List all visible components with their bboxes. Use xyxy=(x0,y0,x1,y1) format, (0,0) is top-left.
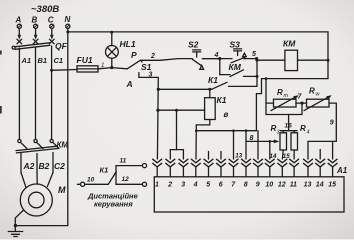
svg-text:5: 5 xyxy=(252,51,256,58)
remote control switch K1 xyxy=(77,158,146,187)
stub terminal 6 xyxy=(220,152,222,160)
switch S1 xyxy=(126,50,156,89)
wire feed to Rт xyxy=(266,79,274,104)
svg-text:P: P xyxy=(131,50,137,60)
terminal 12 of block D1 xyxy=(278,159,287,188)
svg-text:12: 12 xyxy=(278,181,286,188)
wire terminal 7 label 13 xyxy=(233,131,235,159)
circuit breaker QF xyxy=(12,39,68,51)
pushbutton S2 (NC) xyxy=(188,40,220,70)
svg-text:R: R xyxy=(300,124,306,133)
svg-text:К1: К1 xyxy=(217,95,227,105)
wire staple to terminals 2 and 3 xyxy=(170,150,183,159)
wire to lamp xyxy=(111,32,113,45)
terminal 7 of block D1 xyxy=(229,159,238,188)
wire C1 xyxy=(51,46,53,139)
node C phase terminal xyxy=(48,16,54,40)
svg-text:A: A xyxy=(126,79,133,89)
auxiliary contact KM xyxy=(220,59,257,77)
resistor R3 xyxy=(271,124,287,150)
contactor KM main contacts xyxy=(16,139,68,153)
svg-text:т: т xyxy=(284,93,289,99)
svg-text:керування: керування xyxy=(94,200,133,209)
wire bus y129 xyxy=(196,130,256,132)
wire N vertical xyxy=(67,29,69,226)
node 5 xyxy=(255,57,258,60)
svg-text:S3: S3 xyxy=(230,40,241,50)
wire coil K1 left pin xyxy=(158,109,205,111)
wire S1 contact 3 bracket xyxy=(139,73,158,159)
svg-text:C: C xyxy=(48,16,54,25)
svg-text:К1: К1 xyxy=(100,166,109,175)
node C1 fuse junction xyxy=(50,69,53,72)
node 7 xyxy=(296,102,307,104)
svg-text:13: 13 xyxy=(304,181,312,188)
stub terminal 10 xyxy=(269,141,271,159)
svg-text:R: R xyxy=(277,88,283,97)
wire C2 xyxy=(52,153,54,173)
svg-text:К1: К1 xyxy=(208,75,218,85)
svg-text:HL1: HL1 xyxy=(120,39,136,49)
node lamp junction xyxy=(110,31,113,34)
resistor R4 xyxy=(291,124,310,150)
svg-text:в: в xyxy=(224,110,229,119)
relay contact K1 xyxy=(158,75,257,89)
svg-text:3: 3 xyxy=(181,181,185,188)
svg-text:А1: А1 xyxy=(336,166,348,175)
svg-text:B2: B2 xyxy=(39,161,50,171)
svg-text:N: N xyxy=(65,15,71,24)
node 4 xyxy=(218,57,221,60)
wire lamp bottom xyxy=(111,58,113,67)
wire B2 xyxy=(36,154,38,173)
terminal 4 of block D1 xyxy=(191,159,200,188)
svg-text:M: M xyxy=(58,185,66,195)
block D1 terminal box xyxy=(154,166,347,212)
node N neutral terminal xyxy=(65,15,71,28)
svg-text:4: 4 xyxy=(214,52,219,59)
svg-text:9: 9 xyxy=(330,120,334,127)
wire A2 xyxy=(20,153,22,173)
wire node 8 to terminal 8 xyxy=(232,129,235,132)
svg-text:C1: C1 xyxy=(54,56,64,65)
svg-text:QF: QF xyxy=(55,41,68,51)
svg-text:6: 6 xyxy=(219,181,223,188)
wire R3 to terminal 12 xyxy=(281,150,284,159)
svg-text:КМ: КМ xyxy=(283,39,296,49)
svg-text:16: 16 xyxy=(285,123,293,130)
svg-text:2: 2 xyxy=(167,181,172,188)
terminal 10 of block D1 xyxy=(265,159,274,188)
svg-text:14: 14 xyxy=(316,181,324,188)
pushbutton S3 (NO) xyxy=(220,40,257,63)
svg-text:КМ: КМ xyxy=(229,62,242,72)
terminal 1 of block D1 xyxy=(153,159,162,188)
wire node5 down xyxy=(256,59,258,87)
terminal 5 of block D1 xyxy=(204,159,213,188)
terminal 6 of block D1 xyxy=(217,159,226,188)
wire Rw to node 9 xyxy=(308,103,336,159)
node 16 bar over R3 R4 xyxy=(281,130,298,132)
svg-text:15: 15 xyxy=(328,181,336,188)
svg-text:13: 13 xyxy=(235,153,242,160)
wire riser to terminals 2-3 staple xyxy=(176,110,178,149)
stub terminal 14 xyxy=(319,150,321,160)
node A phase terminal xyxy=(15,16,22,40)
terminal 13 of block D1 xyxy=(304,159,313,188)
svg-text:B: B xyxy=(32,16,38,25)
wire coil K1 bottom to terminal 4 xyxy=(196,120,210,125)
wire to terminal 9 xyxy=(257,131,259,159)
svg-text:8: 8 xyxy=(244,181,248,188)
relay coil K1 xyxy=(205,88,229,120)
resistor Rw (variable) xyxy=(304,87,332,111)
svg-text:FU1: FU1 xyxy=(77,55,93,65)
terminal 11 of block D1 xyxy=(290,159,299,188)
terminal 14 of block D1 xyxy=(316,159,325,188)
wire R4 to terminal 11 xyxy=(293,150,295,159)
wire motor star point to ground xyxy=(15,210,23,225)
svg-text:C2: C2 xyxy=(54,161,65,171)
wire S1 contact 2 to S2 xyxy=(141,59,193,61)
terminal 3 of block D1 xyxy=(179,159,188,188)
svg-text:A2: A2 xyxy=(23,161,35,171)
svg-text:~380В: ~380В xyxy=(31,4,59,15)
lamp HL1 xyxy=(106,39,136,59)
node B phase terminal xyxy=(32,16,38,40)
terminal 8 of block D1 xyxy=(242,159,251,188)
svg-text:4: 4 xyxy=(307,130,310,136)
svg-text:5: 5 xyxy=(206,181,210,188)
svg-text:9: 9 xyxy=(256,181,260,188)
wire node 7 to node 16 xyxy=(266,103,302,114)
svg-text:B1: B1 xyxy=(38,56,48,65)
wire top bus N to right xyxy=(68,32,328,60)
contactor coil KM xyxy=(257,39,328,71)
svg-text:12: 12 xyxy=(122,176,130,183)
resistor Rт (variable) xyxy=(271,88,299,111)
svg-text:10: 10 xyxy=(87,177,95,184)
svg-text:11: 11 xyxy=(290,181,297,188)
fuse FU1 xyxy=(77,55,99,72)
svg-text:2: 2 xyxy=(150,53,155,60)
svg-text:1: 1 xyxy=(155,181,159,188)
ground xyxy=(8,226,22,237)
svg-text:10: 10 xyxy=(265,181,273,188)
wire ground to neutral xyxy=(15,225,67,227)
motor M xyxy=(20,184,66,216)
svg-text:14: 14 xyxy=(270,153,277,160)
svg-text:A: A xyxy=(15,16,22,25)
svg-text:4: 4 xyxy=(193,181,198,188)
terminal 15 of block D1 xyxy=(328,159,337,188)
svg-text:КМ: КМ xyxy=(57,141,69,150)
wire C1 to fuse xyxy=(52,69,77,72)
svg-text:S2: S2 xyxy=(188,40,199,50)
terminal 9 of block D1 xyxy=(254,159,263,188)
wire A1 xyxy=(18,48,20,139)
svg-text:11: 11 xyxy=(120,158,127,165)
scan artifact left edge xyxy=(0,51,2,55)
wires into motor xyxy=(21,173,26,188)
terminal 2 of block D1 xyxy=(166,159,175,188)
svg-text:A1: A1 xyxy=(21,56,32,65)
wire right side down to resistor feed xyxy=(256,60,328,131)
wire B1 xyxy=(35,47,37,139)
svg-text:R: R xyxy=(309,87,315,96)
stub terminal 5 xyxy=(208,152,210,160)
